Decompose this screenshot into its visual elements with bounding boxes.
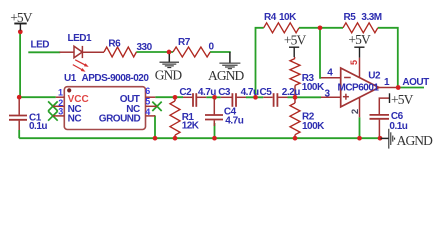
svg-text:12K: 12K [182, 120, 200, 131]
svg-text:100K: 100K [302, 82, 325, 93]
svg-text:GND: GND [155, 67, 183, 82]
svg-text:0.1u: 0.1u [389, 121, 407, 132]
svg-text:2.2u: 2.2u [282, 87, 300, 98]
svg-text:5: 5 [349, 60, 359, 65]
svg-text:AGND: AGND [397, 133, 434, 148]
svg-text:4.7u: 4.7u [241, 87, 259, 98]
svg-text:10K: 10K [279, 12, 297, 23]
svg-text:+5V: +5V [391, 92, 414, 107]
svg-text:6: 6 [145, 86, 150, 96]
svg-text:C2: C2 [179, 87, 192, 98]
svg-text:LED1: LED1 [68, 33, 93, 44]
svg-text:100K: 100K [302, 121, 325, 132]
svg-text:C5: C5 [260, 87, 273, 98]
svg-text:5: 5 [145, 97, 150, 107]
svg-text:R7: R7 [178, 37, 191, 48]
svg-text:4.7u: 4.7u [225, 115, 243, 126]
svg-text:2: 2 [350, 109, 361, 114]
svg-text:U2: U2 [368, 71, 381, 82]
svg-text:330: 330 [137, 42, 153, 53]
svg-text:+5V: +5V [284, 33, 307, 48]
svg-text:R4: R4 [264, 12, 277, 23]
svg-text:AOUT: AOUT [402, 77, 429, 88]
svg-text:APDS-9008-020: APDS-9008-020 [82, 73, 150, 84]
svg-text:R5: R5 [344, 12, 357, 23]
svg-text:+5V: +5V [10, 10, 33, 25]
svg-text:AGND: AGND [208, 68, 245, 83]
svg-text:C3: C3 [218, 87, 231, 98]
svg-text:3.3M: 3.3M [361, 12, 381, 23]
svg-text:GROUND: GROUND [99, 113, 141, 124]
svg-text:0.1u: 0.1u [29, 121, 47, 132]
svg-text:1: 1 [58, 88, 63, 98]
svg-text:U1: U1 [64, 73, 77, 84]
svg-text:4.7u: 4.7u [198, 87, 216, 98]
svg-text:3: 3 [58, 107, 63, 117]
svg-text:NC: NC [68, 113, 82, 124]
svg-text:+5V: +5V [348, 32, 371, 47]
svg-text:MCP6001: MCP6001 [338, 83, 380, 94]
svg-text:LED: LED [31, 40, 50, 51]
svg-text:R6: R6 [108, 38, 121, 49]
svg-text:4: 4 [145, 107, 150, 117]
